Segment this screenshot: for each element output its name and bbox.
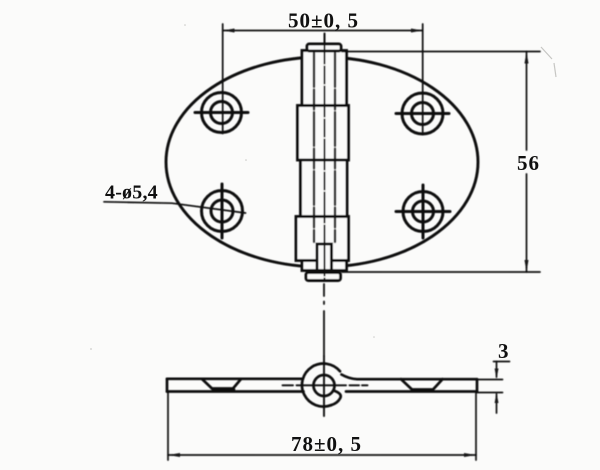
svg-text:56: 56 <box>517 151 540 175</box>
svg-text:3: 3 <box>498 339 510 363</box>
svg-text:50±0, 5: 50±0, 5 <box>288 9 359 33</box>
svg-text:4-ø5,4: 4-ø5,4 <box>105 182 158 204</box>
svg-text:78±0, 5: 78±0, 5 <box>291 432 362 456</box>
